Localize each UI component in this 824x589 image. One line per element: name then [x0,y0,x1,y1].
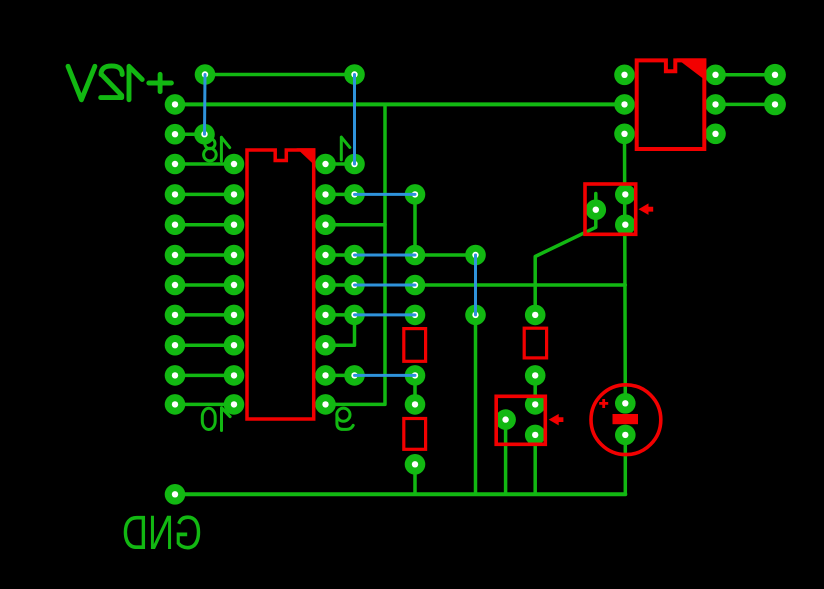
ic U2 DIP-6 outline with pin-1 notch [637,60,705,149]
wire node (415,255) to (475.5,255) [415,253,476,257]
pad U1 pin 13 (left row) [224,305,245,326]
transistor Q1 orientation arrow [639,203,654,215]
pad U1 pin 5 (right row) [315,275,336,296]
wire U2 pin5 to pad (715.5,104.4)-(775,104.4) [716,103,776,107]
wire Q2 pad(535.2,434.9) to GND rail [533,435,537,494]
pad via net1 mid column [344,154,365,175]
pad J1-7 left connector [165,275,186,296]
wire top-layer blue (475.5,255)-(475.5,314.9) [474,255,477,315]
wire top-layer blue (354.5,314.9)-(415,314.9) [355,313,416,316]
wire J1 to U1 pin row 3 (175,224.7)-(234,224.7) [175,223,234,227]
pin number 1 of U1 (mirrored vector font) [341,137,350,160]
wire R1 bottom pad to R2 top pad (415,375.4)-(415,404.4) [413,375,417,404]
drill holes of all pads [172,71,778,497]
pad U1 pin 6 (right row) [315,305,336,326]
pad Q2 emitter [525,425,546,446]
pad R1 top [405,305,426,326]
capacitor C1 plus sign [599,399,608,408]
wire node (415,194.4) down to (415,255) [413,194,417,255]
pad U2 pin 5 (right row) [705,94,726,115]
wire U1 pin2 stub (325.5,194)-(354.5,194) [326,193,355,197]
pad J1-6 left connector [165,245,186,266]
resistor R1 outline [404,329,426,362]
pad Q2 collector [525,394,546,415]
pad GND [165,484,186,505]
pad J1-10 left connector [165,365,186,386]
capacitor C1 polarity bar [613,414,639,424]
wire top-layer blue (354.5,74.5)-(354.5,164) [353,75,356,165]
pad R1 bottom [405,365,426,386]
pad J2-2 jumper [344,64,365,85]
wire top-layer blue (205,74.5)-(204.5,134.2) [203,75,207,135]
pad via net2 mid column [344,184,365,205]
transistor Q2 outline [496,396,545,444]
wire net +12V top jumper (205,74.5)-(354.5,74.5) [205,73,355,77]
wire U1 pin9 to +12V rail big L (325.5,404.4)-(385,404.4)-(385,104.4) [326,104,386,404]
pad U1 pin 15 (left row) [224,245,245,266]
pad via (475.5,314.9) [465,305,486,326]
pad J1-4 left connector [165,184,186,205]
pad R3 top [525,305,546,326]
pin number 18 of U1 (mirrored vector font) [221,137,229,161]
wire R3 top pad up and diagonal to Q1 base (535.2,314.9)-(535.2,256.5)-(595.8,227.3)-(595.8,193.5) [535,194,596,315]
pad U2 pin 4 (right row) [705,124,726,145]
pad U1 pin 2 (right row) [315,184,336,205]
ic U1 DIP-18 outline with pin-1 notch [247,150,314,419]
pad J3-2 output [764,94,786,116]
pad Q2 base [495,409,516,430]
pin number 9 of U1 (mirrored vector font) [337,408,350,421]
pad via net6 mid column [344,305,365,326]
wire U1 pin8 stub (325.5,375.4)-(354.5,375.4) [326,374,355,378]
wire J1 to U1 pin row 6 (175,314.9)-(234,314.9) [175,313,234,317]
pad J1-5 left connector [165,214,186,235]
capacitor C1 circular outline [591,385,661,455]
pad U1 pin 7 (right row) [315,335,336,356]
wire J1 to U1 pin row 1 (175,164.0)-(234,164.0) [175,162,234,166]
pad U2 pin 6 (right row) [705,65,726,86]
ic U2 pin-1 corner bevel marker [677,58,707,81]
pad J2-1 +12V jumper [195,64,216,85]
pad U1 pin 3 (right row) [315,214,336,235]
pad via net8 mid column [344,365,365,386]
wire J1 to U1 pin row 4 (175,255.0)-(234,255.0) [175,253,234,257]
pad U1 pin 18 (left row) [224,154,245,175]
pad R3 bottom [525,365,546,386]
wire top-layer blue (354.5,255)-(415,255) [355,254,416,257]
pad U2 pin 1 (left row) [614,65,635,86]
resistor R3 outline [524,328,546,358]
pad U2 pin 3 (left row) [614,124,635,145]
pad C1 minus [615,425,636,446]
wire R3 bottom pad to Q2 collector (535.2,375.4)-(535.2,404.4) [533,375,537,404]
pad J1-9 left connector [165,335,186,356]
pad node (415,285) [405,275,426,296]
pad Q1 emitter [615,214,636,235]
wire node (415,285) long to collector column (625.3,285) [415,283,625,287]
pad via pin18 node [194,124,215,145]
pad R2 top [405,394,426,415]
pad J3-1 output [764,64,786,86]
pad U1 pin 8 (right row) [315,365,336,386]
wire J1 to U1 pin row 7 (175,345.2)-(234,345.2) [175,343,234,347]
ic U1 pin-1 corner bevel marker [297,148,316,166]
pad U1 pin 10 (left row) [224,394,245,415]
pad U1 pin 14 (left row) [224,275,245,296]
label net GND (mirrored) [122,506,202,560]
pad Q1 base [586,199,607,220]
pad U1 pin 4 (right row) [315,245,336,266]
pad J1-8 left connector [165,305,186,326]
pad C1 plus [615,393,636,414]
wire top-layer blue (354.5,194.4)-(415,194.4) [355,193,416,196]
wire C1 minus pad to GND rail (625.3,434.9)-(625.3,494.3) [624,435,628,494]
transistor Q1 outline [585,184,636,234]
wire J1 to U1 pin row 5 (175,285.0)-(234,285.0) [175,283,234,287]
resistor R2 outline [404,419,426,450]
wire top-layer blue (354.5,285)-(415,285) [355,284,416,287]
wire R2 bottom pad to GND rail (415,464.3)-(415,494.3) [413,464,417,494]
pad J1-11 left connector [165,394,186,415]
wire J1 to U1 pin row 9 (175,404.4)-(234,404.4) [175,403,234,407]
wire U1 pin6 stub (325.5,314.9)-(354.5,314.9) [326,313,355,317]
wire net +12V main rail (175,104.4)-(624.5,104.4) [175,102,625,106]
pad J1-1 left connector [165,94,186,115]
pad node (415,255) [405,245,426,266]
pad U1 pin 11 (left row) [224,365,245,386]
pad Q1 collector [615,184,636,205]
pad J1-3 left connector [165,154,186,175]
wire GND bottom rail (175,494.3)-(625.3,494.3) [175,492,625,496]
wire via (475.5,314.9) down to GND rail [474,315,478,494]
wire J1 to U1 pin row 2 (175,194.4)-(234,194.4) [175,193,234,197]
pad J1-2 left connector [165,124,186,145]
wire pad(354.5,314.9) down to U1 pin7 corner [326,315,355,345]
pad U1 pin 17 (left row) [224,184,245,205]
wire top-layer blue (354.5,375.4)-(415,375.4) [355,374,416,377]
pad U1 pin 9 (right row) [315,394,336,415]
wire U1 pin4 stub (325.5,255)-(354.5,255) [326,253,355,257]
wire J1 to U1 pin row 8 (175,375.4)-(234,375.4) [175,374,234,378]
wire U1 pin5 stub (325.5,285)-(354.5,285) [326,283,355,287]
wire U2 pin4 to pad (715.5,74.8)-(775,74.8) [716,73,776,77]
wire J1 pin2 to via (175,134)-(204.5,134) [175,132,205,136]
transistor Q2 orientation arrow [549,414,564,426]
pad U1 pin 12 (left row) [224,335,245,356]
pad via net4 mid column [344,245,365,266]
pin number 10 of U1 (mirrored vector font) [222,408,231,431]
pad R2 bottom [405,454,426,475]
wire U1 pin1 stub (325.5,164)-(354.5,164) [326,162,355,166]
pad via net5 mid column [344,275,365,296]
label net +12V (mirrored vector font) [68,66,171,100]
wire U1 pin3 to +12V vertical (325.5,224.7)-(385,224.7) [326,223,386,227]
wire U2 pin3 down through Q1 to C1 plus pad (624.5,133.8)-(625.3,403.3) [623,134,627,404]
svg-text:GND: GND [122,506,202,560]
pad U2 pin 2 (left row) [614,94,635,115]
pad via (475.5,255) [465,245,486,266]
pad node (415,194.4) [405,184,426,205]
pad U1 pin 16 (left row) [224,214,245,235]
wire Q2 base pad (505.6,419.6) to GND rail [504,420,508,495]
pad U1 pin 1 (right row) [315,154,336,175]
